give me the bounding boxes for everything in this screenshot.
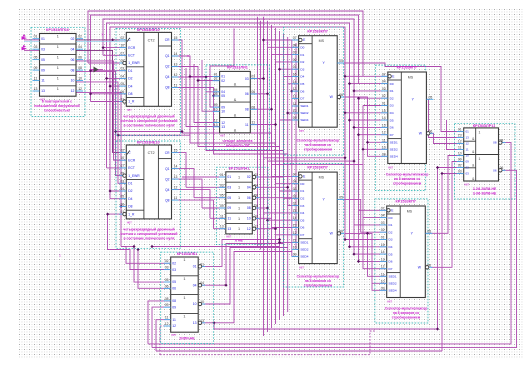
wire bottom bus 4 — [160, 331, 375, 355]
svg-text:09: 09 — [172, 305, 176, 309]
junction at 287.7,113.0 — [286, 111, 289, 114]
svg-text:10: 10 — [293, 109, 297, 113]
svg-text:05: 05 — [172, 280, 176, 284]
svg-text:11: 11 — [174, 84, 178, 88]
wire counter2.ECT wire — [107, 167, 127, 169]
wire corr2 v3 — [271, 25, 273, 328]
svg-text:02: 02 — [71, 37, 75, 41]
wire corr3 down2 — [363, 217, 387, 219]
svg-text:SED2: SED2 — [390, 148, 398, 152]
svg-text:13: 13 — [174, 175, 178, 179]
svg-text:01: 01 — [220, 173, 224, 177]
svg-text:CR: CR — [165, 38, 170, 42]
svg-text:13: 13 — [221, 125, 225, 129]
IC DD6 quad NOR KR1533LE1 — [161, 252, 214, 344]
junction at 354.0,90.9 — [352, 89, 355, 92]
svg-text:SED1: SED1 — [300, 104, 308, 108]
junction at 354.0,161.1 — [352, 160, 355, 163]
svg-text:D4: D4 — [300, 75, 304, 79]
svg-text:нет: нет — [127, 108, 132, 112]
svg-text:D2: D2 — [389, 230, 393, 234]
svg-text:D6: D6 — [390, 126, 394, 130]
svg-text:SED4: SED4 — [300, 118, 308, 122]
svg-text:12: 12 — [165, 322, 169, 326]
wire corr3 vC — [354, 91, 388, 128]
wire top bus loop 3 — [103, 19, 354, 91]
wire top bus loop 2 — [91, 15, 359, 102]
wire counter1.ECT wire — [103, 54, 126, 56]
svg-text:Q8: Q8 — [165, 198, 170, 202]
junction at 103.0,47.6 — [102, 46, 105, 49]
svg-text:06: 06 — [339, 229, 343, 233]
svg-text:D5: D5 — [300, 82, 304, 86]
junction at 279.5,239.5 — [278, 238, 281, 241]
svg-text:15: 15 — [382, 109, 386, 113]
svg-text:Q1: Q1 — [165, 167, 170, 171]
svg-text:1_R: 1_R — [128, 212, 135, 216]
svg-text:11: 11 — [174, 196, 178, 200]
svg-text:на 8 каналов со: на 8 каналов со — [305, 279, 331, 283]
wire mux2 pin wire 6 — [264, 212, 299, 214]
svg-text:03: 03 — [245, 77, 249, 81]
svg-text:1: 1 — [183, 296, 185, 300]
svg-text:D3: D3 — [390, 104, 394, 108]
svg-text:01: 01 — [466, 130, 470, 134]
junction at 279.5,242.4 — [278, 241, 281, 244]
svg-text:03: 03 — [41, 47, 45, 51]
wire mux1 pin wire 6 — [284, 76, 299, 78]
svg-text:13: 13 — [381, 257, 385, 261]
svg-text:MS: MS — [319, 176, 325, 180]
svg-text:06: 06 — [120, 90, 124, 94]
svg-text:D2: D2 — [128, 189, 132, 193]
svg-text:Q2: Q2 — [165, 65, 170, 69]
svg-text:03: 03 — [293, 51, 297, 55]
svg-text:01: 01 — [293, 202, 297, 206]
svg-text:Селектор-мультиплексор: Селектор-мультиплексор — [297, 139, 340, 143]
junction at 354.0,254.1 — [352, 253, 355, 256]
svg-text:09: 09 — [34, 66, 38, 70]
svg-text:03: 03 — [466, 172, 470, 176]
wire norE.out2 route — [199, 244, 284, 286]
svg-text:10: 10 — [293, 245, 297, 249]
IC DD9 mux KR1533KP7 right-top — [375, 65, 425, 190]
wire corr2 v4 — [275, 28, 277, 324]
svg-text:04: 04 — [78, 45, 82, 49]
wire mux3.W route — [429, 133, 464, 143]
svg-text:03: 03 — [120, 179, 124, 183]
svg-text:02: 02 — [78, 35, 82, 39]
svg-text:четырехразрядный двоичный: четырехразрядный двоичный — [123, 115, 174, 119]
svg-text:11: 11 — [228, 217, 232, 221]
svg-text:12: 12 — [293, 94, 297, 98]
junction at 345.0,112.8 — [343, 111, 346, 114]
svg-text:D0: D0 — [300, 46, 304, 50]
junction at 287.7,187.3 — [286, 186, 289, 189]
wire corr3 vE — [363, 106, 388, 150]
svg-text:MS: MS — [407, 210, 413, 214]
svg-text:05: 05 — [227, 196, 231, 200]
svg-text:мощность 2И: мощность 2И — [226, 143, 250, 147]
svg-text:1: 1 — [238, 217, 240, 221]
svg-text:14: 14 — [293, 216, 297, 220]
svg-text:КР1533ЛР11: КР1533ЛР11 — [473, 124, 496, 128]
wire corr2 v1 — [263, 17, 265, 336]
svg-text:SED1: SED1 — [300, 241, 308, 245]
svg-text:01: 01 — [227, 175, 231, 179]
svg-text:06: 06 — [71, 58, 75, 62]
net highlight marks — [76, 40, 126, 42]
wire counter1.Q2 route — [172, 67, 220, 81]
wire gateC.in4b wire — [186, 68, 220, 127]
IC DD5 hex inverter KR1533LN1 — [216, 167, 268, 245]
wire aoi.out1 route — [148, 143, 511, 344]
svg-text:12: 12 — [174, 186, 178, 190]
svg-text:07: 07 — [293, 172, 297, 176]
svg-text:нет: нет — [127, 221, 132, 225]
svg-text:03: 03 — [227, 186, 231, 190]
svg-text:нет: нет — [299, 129, 304, 133]
wire corr3 down1 — [359, 209, 387, 211]
wire E in4b wire — [160, 326, 171, 355]
svg-text:10: 10 — [247, 217, 251, 221]
wire mux3.Y route — [422, 99, 464, 137]
wire mid corridor v3 — [206, 92, 299, 199]
svg-text:04: 04 — [193, 283, 197, 287]
svg-text:09: 09 — [165, 303, 169, 307]
svg-text:10: 10 — [71, 79, 75, 83]
junction at 110.0,86.1 — [109, 85, 112, 88]
svg-text:11: 11 — [245, 123, 249, 127]
wire aoi in5 long — [447, 120, 464, 150]
wire invD in2 wire — [186, 186, 226, 188]
svg-text:D3: D3 — [300, 67, 304, 71]
junction at 152.0,246.5 — [150, 245, 153, 248]
svg-text:&: & — [234, 83, 237, 87]
junction at 213.5,95.8 — [212, 94, 215, 97]
wire A.out4 route — [76, 71, 126, 175]
svg-text:14: 14 — [174, 52, 178, 56]
svg-text:нет: нет — [387, 299, 392, 303]
svg-text:Селектор-мультиплексор: Селектор-мультиплексор — [386, 173, 429, 177]
svg-text:КР1533КП7: КР1533КП7 — [307, 29, 327, 33]
svg-text:10: 10 — [120, 156, 124, 160]
svg-text:10: 10 — [458, 152, 462, 156]
svg-text:КР1533ЛН1: КР1533ЛН1 — [229, 167, 250, 171]
junction at 345.0,239.5 — [343, 238, 346, 241]
svg-text:стробированием: стробированием — [304, 284, 333, 288]
svg-text:6 повторителей с: 6 повторителей с — [42, 100, 72, 104]
junction at 291.8,91.1 — [290, 90, 293, 93]
wire counter1.EWR wire — [88, 62, 125, 64]
junction at 110.0,191.0 — [109, 189, 112, 192]
svg-text:13: 13 — [466, 136, 470, 140]
svg-text:12: 12 — [466, 142, 470, 146]
svg-text:11: 11 — [41, 79, 45, 83]
svg-text:13: 13 — [293, 224, 297, 228]
svg-text:D5: D5 — [300, 218, 304, 222]
wire counter1.ECR wire — [103, 47, 126, 49]
svg-text:D0: D0 — [390, 82, 394, 86]
wire mux1.W route — [345, 97, 388, 142]
svg-text:04: 04 — [293, 180, 297, 184]
svg-text:02: 02 — [165, 259, 169, 263]
wire mux3.in4 wire — [359, 97, 388, 99]
svg-text:в состояние логического нуля: в состояние логического нуля — [123, 236, 174, 240]
svg-text:07: 07 — [120, 164, 124, 168]
svg-text:1: 1 — [57, 45, 59, 49]
junction at 138.0,249.5 — [136, 248, 139, 251]
svg-text:10: 10 — [214, 107, 218, 111]
svg-text:Q1: Q1 — [165, 54, 170, 58]
svg-text:1_EWR: 1_EWR — [128, 174, 140, 178]
junction at 367.5,233.4 — [366, 232, 369, 235]
svg-text:12: 12 — [293, 231, 297, 235]
svg-text:12: 12 — [174, 73, 178, 77]
svg-text:12: 12 — [172, 324, 176, 328]
svg-text:14: 14 — [293, 80, 297, 84]
svg-text:D4: D4 — [389, 245, 393, 249]
svg-text:10: 10 — [120, 44, 124, 48]
svg-text:D4: D4 — [128, 84, 132, 88]
svg-text:12: 12 — [78, 87, 82, 91]
svg-text:15: 15 — [381, 243, 385, 247]
junction at 349.5,83.6 — [348, 82, 351, 85]
svg-text:13: 13 — [41, 89, 45, 93]
svg-text:09: 09 — [293, 116, 297, 120]
svg-text:02: 02 — [382, 94, 386, 98]
svg-text:КР1533КП7: КР1533КП7 — [395, 200, 415, 204]
svg-text:D4: D4 — [300, 211, 304, 215]
svg-text:D5: D5 — [389, 252, 393, 256]
svg-text:14: 14 — [174, 165, 178, 169]
wire gateC.out1 route — [250, 40, 298, 79]
wire mux1 pin wire 11 — [288, 112, 299, 114]
svg-text:11: 11 — [293, 238, 297, 242]
wire mux2 pin wire 11 — [296, 248, 299, 250]
svg-text:MS: MS — [319, 39, 325, 43]
svg-text:&: & — [234, 98, 237, 102]
wire mid v from c2.Q2 — [172, 179, 203, 208]
wire counter2.D8 wire — [121, 205, 126, 207]
svg-text:05: 05 — [120, 195, 124, 199]
svg-text:09: 09 — [382, 152, 386, 156]
wire invD out4 wire — [253, 207, 268, 209]
svg-text:05: 05 — [429, 95, 433, 99]
wire invD out6 wire — [253, 228, 276, 230]
svg-text:SED4: SED4 — [300, 255, 308, 259]
wire mux4 sed wires a — [368, 233, 387, 276]
wire mid corridor v4 — [214, 96, 299, 206]
wire counter1.Q4 route — [172, 77, 220, 92]
wire mux4 sed wires b — [372, 283, 387, 290]
wire counter2.D4 wire — [110, 198, 126, 200]
svg-text:1: 1 — [59, 254, 61, 258]
svg-text:1: 1 — [183, 315, 185, 319]
svg-text:05: 05 — [221, 94, 225, 98]
svg-text:02: 02 — [221, 79, 225, 83]
wire mux1 pin wire 8 — [292, 90, 299, 92]
junction at 90.5,70.7 — [89, 69, 92, 72]
input port X1 — [22, 36, 28, 40]
svg-text:13: 13 — [293, 87, 297, 91]
svg-text:1: 1 — [57, 87, 59, 91]
junction at 349.5,120.1 — [348, 119, 351, 122]
wire corr2 v7 — [287, 37, 289, 312]
svg-text:повышенной нагрузочной: повышенной нагрузочной — [34, 104, 79, 108]
wire invD out5 wire — [253, 217, 272, 219]
svg-text:01: 01 — [34, 35, 38, 39]
svg-text:04: 04 — [247, 186, 251, 190]
svg-text:15: 15 — [293, 73, 297, 77]
svg-text:13: 13 — [34, 87, 38, 91]
svg-text:08: 08 — [172, 299, 176, 303]
wire corr3 vB — [350, 84, 388, 121]
svg-text:03: 03 — [120, 67, 124, 71]
svg-text:счетчик с синхронной установко: счетчик с синхронной установкой — [120, 119, 177, 123]
wire corr3 v down d — [359, 135, 387, 262]
svg-text:Q2: Q2 — [165, 177, 170, 181]
svg-text:05: 05 — [34, 56, 38, 60]
svg-text:Q4: Q4 — [165, 75, 170, 79]
svg-text:счетчик с синхронной установко: счетчик с синхронной установкой — [120, 232, 177, 236]
wire mux4 pin wires — [354, 224, 387, 226]
junction at 345.0,76.3 — [343, 75, 346, 78]
svg-text:четырехразрядный двоичный: четырехразрядный двоичный — [123, 227, 174, 231]
svg-text:D6: D6 — [389, 260, 393, 264]
wire gateC.in2a wire — [210, 29, 234, 108]
svg-text:03: 03 — [458, 170, 462, 174]
IC DD11 AOI KR1533LR11 — [455, 124, 516, 199]
svg-text:КР1533КП7: КР1533КП7 — [397, 66, 417, 70]
svg-text:03: 03 — [382, 87, 386, 91]
svg-text:1_R: 1_R — [128, 100, 135, 104]
svg-text:D3: D3 — [389, 238, 393, 242]
wire mux2 pin wire 9 — [276, 234, 299, 236]
svg-text:02: 02 — [247, 175, 251, 179]
svg-text:03: 03 — [34, 45, 38, 49]
svg-text:05: 05 — [339, 59, 343, 63]
wire A.out3 route — [76, 61, 126, 160]
svg-text:нет: нет — [464, 182, 469, 186]
svg-text:D1: D1 — [390, 89, 394, 93]
junction at 206.0,77.0 — [204, 75, 207, 78]
junction at 263.5,40.0 — [262, 38, 265, 41]
svg-text:D7: D7 — [390, 133, 394, 137]
svg-text:10: 10 — [466, 154, 470, 158]
wire h below mux1 b — [268, 160, 355, 162]
junction at 134.0,246.5 — [132, 245, 135, 248]
junction at 275.5,124.5 — [274, 123, 277, 126]
wire corr2 v0b — [260, 21, 262, 250]
wire corr4 v2 — [441, 174, 443, 352]
svg-text:06: 06 — [247, 196, 251, 200]
wire mux2 pin wire 10 — [280, 241, 299, 243]
wire left-east h1 — [116, 131, 183, 133]
svg-text:13: 13 — [193, 321, 197, 325]
svg-text:04: 04 — [120, 74, 124, 78]
svg-text:1: 1 — [57, 56, 59, 60]
wire mux3.in2 wire — [350, 83, 388, 85]
wire A.out6 route — [76, 92, 121, 246]
svg-text:11: 11 — [172, 318, 176, 322]
svg-text:1: 1 — [183, 258, 185, 262]
wire mux1.Y route — [337, 63, 464, 132]
wire gateC.out2 route — [250, 47, 298, 94]
wire flag stub — [95, 69, 103, 71]
svg-text:SED1: SED1 — [390, 141, 398, 145]
wire mux2 pin wire 12 — [292, 255, 299, 257]
wire mux1 pin wire 12 — [280, 119, 299, 121]
wire E in2b wire — [138, 250, 171, 289]
IC DD4 quad AND KR1533LI1 — [206, 65, 269, 150]
svg-text:D1: D1 — [300, 189, 304, 193]
wire h below mux1 a — [264, 157, 346, 159]
svg-text:1: 1 — [238, 175, 240, 179]
wire mux2 pin wire 7 — [268, 219, 299, 221]
svg-text:06: 06 — [120, 202, 124, 206]
svg-text:03: 03 — [381, 221, 385, 225]
svg-text:2ИЛИ-НЕ: 2ИЛИ-НЕ — [179, 337, 195, 341]
wire counter2.D2 wire — [110, 190, 126, 192]
svg-text:06: 06 — [172, 287, 176, 291]
svg-text:05: 05 — [339, 195, 343, 199]
wire mid v from c2.Q8 — [172, 200, 214, 229]
wire net X2 to A.2 — [24, 49, 40, 51]
junction at 358.5,134.7 — [357, 133, 360, 136]
svg-text:04: 04 — [382, 80, 386, 84]
wire mid v from c2.Q4 — [172, 190, 211, 219]
wire mux1 pin wire 10 — [292, 105, 299, 107]
svg-text:D7: D7 — [300, 97, 304, 101]
wire corr3 v down a — [345, 113, 387, 240]
svg-text:ECR: ECR — [128, 158, 136, 162]
svg-text:в состояние логического нуля: в состояние логического нуля — [123, 124, 174, 128]
svg-text:13: 13 — [214, 123, 218, 127]
wire mux1 pin wire 5 — [280, 68, 299, 70]
wire corr2 v0a — [257, 17, 259, 247]
wire corr2 v2 — [267, 21, 269, 332]
svg-text:02: 02 — [293, 194, 297, 198]
svg-text:09: 09 — [458, 158, 462, 162]
svg-text:КР1533ИЕ10: КР1533ИЕ10 — [137, 140, 160, 144]
wire mux4.Y route — [425, 156, 463, 234]
wire A.out1 to counter1.C — [76, 39, 126, 41]
svg-text:11: 11 — [165, 316, 169, 320]
wire mid v from c2.CR — [172, 153, 187, 188]
svg-text:12: 12 — [458, 140, 462, 144]
svg-text:15: 15 — [174, 149, 178, 153]
wire invD out3 wire — [253, 197, 292, 199]
svg-text:07: 07 — [293, 36, 297, 40]
svg-text:12: 12 — [247, 227, 251, 231]
svg-text:SED2: SED2 — [300, 111, 308, 115]
svg-text:3-3И-3ИЛИ-НЕ: 3-3И-3ИЛИ-НЕ — [473, 192, 497, 196]
svg-text:6 НЕ: 6 НЕ — [235, 239, 243, 243]
wire mux2 pin wire 8 — [272, 227, 299, 229]
svg-text:05: 05 — [214, 92, 218, 96]
svg-text:09: 09 — [381, 286, 385, 290]
svg-text:02: 02 — [466, 166, 470, 170]
junction at 367.5,142.3 — [366, 141, 369, 144]
svg-text:нет: нет — [299, 265, 304, 269]
svg-text:D2: D2 — [300, 60, 304, 64]
svg-text:05: 05 — [427, 229, 431, 233]
wire E in4a wire — [156, 320, 171, 351]
wire invD in6 wire — [214, 228, 226, 230]
svg-text:11: 11 — [466, 148, 469, 152]
svg-text:стробированием: стробированием — [393, 182, 422, 186]
